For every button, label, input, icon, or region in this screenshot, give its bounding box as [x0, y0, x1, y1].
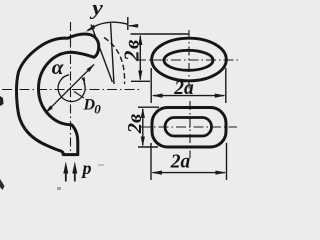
- ring horizontal centerline: [2, 89, 141, 91]
- svg-text:0: 0: [94, 102, 101, 117]
- D0 arrow upper: [87, 64, 95, 72]
- D0 diameter line: [46, 65, 95, 113]
- top section inner ellipse: [164, 50, 213, 70]
- top 2v extension top: [131, 33, 190, 35]
- alpha dimension arc: [58, 75, 85, 102]
- top 2a extension right: [225, 68, 227, 103]
- scan speck bottom: [57, 187, 61, 190]
- bottom section outer obround: [152, 108, 226, 148]
- force arrow P left: [65, 168, 67, 182]
- top section horizontal centerline: [136, 59, 238, 61]
- svg-text:у: у: [89, 0, 104, 19]
- svg-text:2в: 2в: [120, 38, 144, 62]
- gamma outside arrow: [129, 25, 139, 27]
- ring vertical centerline: [70, 22, 72, 156]
- svg-text:2а: 2а: [173, 78, 194, 99]
- D0 arrow lower: [45, 106, 53, 114]
- bottom 2a extension right: [226, 143, 228, 180]
- dashed deflection arc: [104, 38, 125, 85]
- force arrow P right: [74, 168, 76, 182]
- bottom 2v dimension line: [142, 109, 144, 145]
- svg-text:р: р: [81, 158, 92, 178]
- angle line left (gamma): [91, 25, 112, 83]
- svg-text:2а: 2а: [170, 152, 191, 173]
- scan smudge left mid: [0, 96, 4, 106]
- D0 leader: [74, 92, 84, 99]
- gamma dimension arc: [88, 22, 128, 30]
- gamma tick: [127, 17, 129, 30]
- top section outer ellipse: [152, 38, 227, 81]
- top section vertical centerline: [188, 30, 190, 92]
- alpha arc arrowhead: [82, 77, 86, 84]
- bottom 2a dimension line: [153, 172, 226, 174]
- top 2v extension bottom: [131, 80, 150, 82]
- gamma arc left arrowhead: [86, 25, 95, 32]
- bottom section inner obround: [165, 118, 212, 137]
- top 2a dimension line: [153, 95, 224, 97]
- bottom section horizontal centerline: [141, 126, 237, 128]
- top 2v dimension line: [139, 36, 141, 80]
- bottom 2v extension top: [138, 106, 159, 108]
- top 2a extension left: [150, 68, 152, 103]
- bottom section vertical centerline: [189, 101, 191, 158]
- angle line right (gamma, vertical): [111, 22, 115, 84]
- svg-text:α: α: [52, 55, 64, 79]
- bottom 2a extension left: [150, 143, 152, 180]
- bottom 2v extension bottom: [138, 146, 158, 148]
- C-ring band: [17, 34, 99, 155]
- scan smudge left bottom: [0, 179, 5, 190]
- svg-text:2в: 2в: [124, 114, 146, 134]
